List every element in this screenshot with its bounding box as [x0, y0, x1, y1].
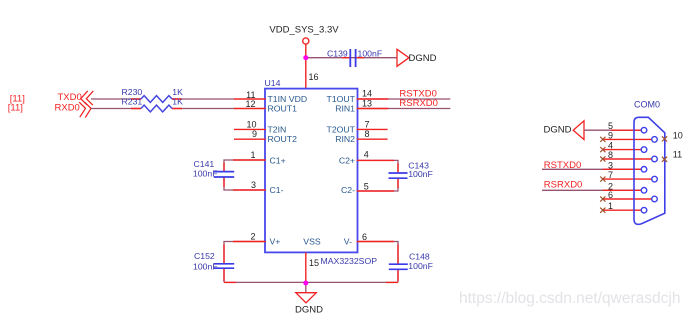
wire R230 to pin 11 [172, 98, 234, 100]
ground DGND top right of C139 [397, 49, 437, 66]
wire red stubs at C139 pins [342, 57, 364, 59]
wire stub COM0 pin 6 [603, 198, 652, 200]
wire DGND to COM0 pin 5 [584, 129, 641, 131]
svg-text:100nF: 100nF [408, 169, 433, 179]
svg-text:RSRXD0: RSRXD0 [544, 180, 583, 191]
junction on ground rail [303, 281, 308, 286]
svg-text:8: 8 [365, 129, 370, 139]
connector pin 1 circle [641, 207, 647, 213]
svg-text:1K: 1K [172, 87, 183, 97]
ground DGND bottom [295, 293, 323, 316]
no-connect X pin 9 [600, 137, 605, 142]
capacitor C139 [327, 48, 382, 67]
wire stub COM0 pin 7 [603, 178, 652, 180]
capacitor C148 [389, 252, 433, 271]
svg-text:T1OUT: T1OUT [327, 94, 356, 104]
svg-text:100nF: 100nF [358, 48, 383, 58]
svg-text:1: 1 [250, 150, 255, 160]
svg-text:https://blog.csdn.net/qwerasdc: https://blog.csdn.net/qwerasdcjh [459, 290, 680, 307]
connector pin 2 circle [641, 188, 647, 194]
svg-text:16: 16 [309, 72, 319, 82]
connector pin 3 circle [641, 167, 647, 173]
wire TXD0 to R230 [91, 98, 141, 100]
svg-text:R231: R231 [122, 96, 143, 106]
port RXD0 [55, 102, 92, 117]
svg-text:12: 12 [245, 99, 255, 109]
connector pin 8 circle [652, 156, 658, 162]
no-connect X pin 1 [600, 208, 605, 213]
svg-text:9: 9 [252, 129, 257, 139]
pin 11 stub [234, 98, 266, 100]
svg-text:RIN2: RIN2 [335, 134, 355, 144]
svg-text:100nF: 100nF [193, 168, 218, 178]
resistor R231 pin stubs [131, 108, 182, 110]
capacitor C143 [389, 160, 433, 179]
connector pin 6 circle [652, 196, 658, 202]
svg-text:T2OUT: T2OUT [327, 124, 356, 134]
svg-text:10: 10 [673, 131, 683, 141]
svg-text:5: 5 [364, 181, 369, 191]
svg-text:DGND: DGND [544, 124, 572, 135]
svg-text:DGND: DGND [295, 304, 323, 315]
svg-text:[11]: [11] [8, 102, 23, 113]
connector pin 7 circle [652, 176, 658, 182]
pin 10 stub [234, 128, 266, 130]
svg-text:RXD0: RXD0 [55, 102, 80, 113]
wire net RSRXD0 from pin 13 [357, 108, 451, 110]
resistor R231 [122, 96, 184, 112]
wire pin 6 (V-) to C148 [357, 242, 398, 265]
svg-text:VDD_SYS_3.3V: VDD_SYS_3.3V [269, 25, 339, 36]
junction at VDD node [303, 55, 308, 60]
wire VDD horizontal to C139 [306, 57, 397, 59]
port TXD0 [58, 91, 94, 105]
wire net RSTXD0 from pin 14 [357, 98, 451, 100]
svg-text:VDD: VDD [289, 94, 307, 104]
svg-text:1K: 1K [172, 96, 183, 106]
svg-text:3: 3 [608, 160, 613, 170]
svg-text:4: 4 [364, 150, 369, 160]
svg-text:C152: C152 [194, 251, 215, 261]
wire pin 2 (V+) to C152 [224, 242, 265, 264]
pin 8 stub [357, 138, 388, 140]
wire VDD vertical to pin 16 [305, 44, 307, 88]
resistor R230 pin stubs [131, 98, 182, 100]
wire C152 to ground rail [223, 268, 225, 282]
svg-text:C2+: C2+ [339, 155, 355, 165]
connector COM0 body [634, 99, 665, 224]
power port VDD_SYS_3.3V [269, 25, 339, 45]
connector pin 9 circle [652, 137, 658, 143]
wire RXD0 to R231 [91, 108, 141, 110]
svg-text:7: 7 [365, 119, 370, 129]
wire stub COM0 pin 1 [603, 209, 641, 211]
wire C148 to ground rail [397, 269, 399, 282]
svg-text:C139: C139 [327, 48, 348, 58]
net label RSRXD0 wire to COM0 pin 2 [542, 180, 641, 191]
svg-text:V-: V- [344, 237, 352, 247]
wire pin 3 to C141 [224, 177, 265, 190]
pin 7 stub [357, 128, 388, 130]
capacitor C141 [193, 159, 234, 178]
op-amp/transceiver IC U14 MAX3232 body [265, 78, 378, 266]
svg-text:C2-: C2- [341, 185, 355, 195]
ground DGND at COM0 pin 5 [544, 121, 584, 140]
svg-text:13: 13 [362, 98, 372, 108]
no-connect X pin 7 [600, 177, 605, 182]
svg-text:T2IN: T2IN [268, 124, 287, 134]
wire stub COM0 pin 8 [603, 158, 652, 160]
no-connect X pin 6 [600, 196, 605, 201]
wire pin 4 to C143 [357, 160, 398, 173]
no-connect X pin 10 on shell [662, 136, 667, 141]
no-connect X pin 8 [600, 156, 605, 161]
svg-text:ROUT1: ROUT1 [268, 104, 298, 114]
svg-text:9: 9 [608, 130, 613, 140]
net label RSTXD0 wire to COM0 pin 3 [542, 160, 641, 171]
svg-text:100nF: 100nF [193, 261, 218, 271]
resistor R230 [122, 87, 184, 103]
svg-text:6: 6 [362, 232, 367, 242]
svg-text:6: 6 [608, 190, 613, 200]
connector pin 5 circle [641, 127, 647, 133]
svg-text:T1IN: T1IN [268, 94, 287, 104]
svg-text:10: 10 [246, 119, 256, 129]
svg-text:C1-: C1- [270, 185, 284, 195]
no-connect X pin 4 [600, 147, 605, 152]
svg-text:11: 11 [673, 149, 682, 159]
connector pin 4 circle [641, 147, 647, 153]
capacitor C152 [193, 251, 234, 271]
wire pin15 to DGND triangle [305, 283, 307, 293]
pin 9 stub [234, 138, 266, 140]
svg-text:7: 7 [608, 170, 613, 180]
svg-text:100nF: 100nF [408, 261, 433, 271]
svg-text:V+: V+ [270, 237, 281, 247]
svg-text:VSS: VSS [303, 237, 321, 247]
svg-text:8: 8 [608, 150, 613, 160]
svg-text:14: 14 [362, 88, 372, 98]
wire pin 5 to C143 [357, 178, 398, 191]
pin 15 wire to ground rail [305, 252, 307, 282]
wire stub COM0 pin 4 [603, 149, 641, 151]
svg-text:C1+: C1+ [270, 155, 286, 165]
svg-text:U14: U14 [265, 78, 281, 88]
pin 12 stub [234, 108, 266, 110]
svg-text:RIN1: RIN1 [335, 104, 355, 114]
svg-text:15: 15 [309, 258, 319, 268]
svg-text:RSRXD0: RSRXD0 [399, 98, 438, 109]
wire pin 1 to C141 [224, 160, 265, 172]
svg-text:DGND: DGND [409, 53, 437, 64]
svg-text:ROUT2: ROUT2 [268, 134, 298, 144]
no-connect X pin 11 on shell [662, 157, 667, 162]
svg-text:COM0: COM0 [634, 99, 660, 109]
svg-text:2: 2 [250, 232, 255, 242]
svg-text:1: 1 [608, 201, 613, 211]
svg-text:3: 3 [251, 180, 256, 190]
svg-text:R230: R230 [122, 87, 143, 97]
svg-text:MAX3232SOP: MAX3232SOP [321, 256, 378, 266]
wire stub COM0 pin 9 [603, 138, 652, 140]
wire ground rail [224, 281, 398, 283]
wire R231 to pin 12 [172, 108, 234, 110]
